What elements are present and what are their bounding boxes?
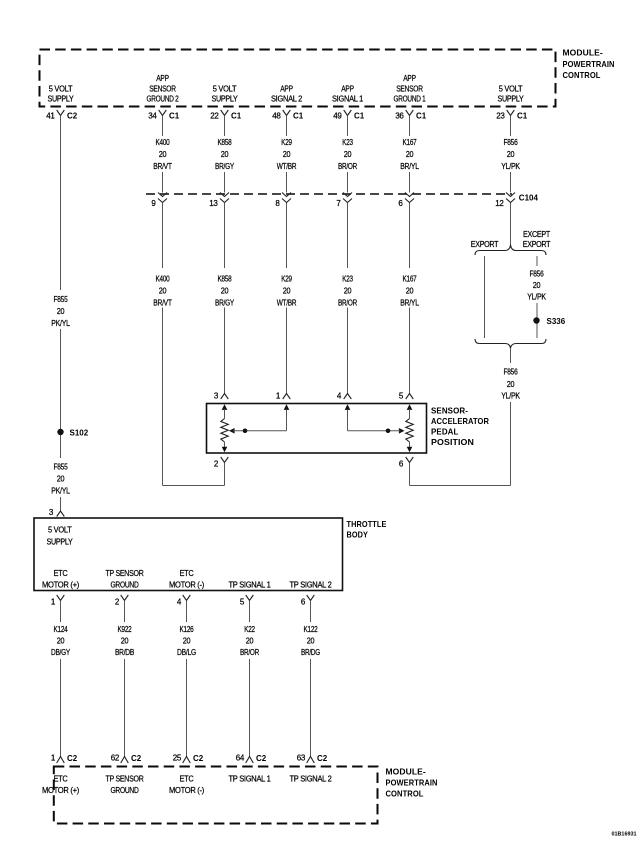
wire label K29 20 WT/BR (lower) (277, 275, 297, 308)
svg-text:GROUND 1: GROUND 1 (394, 95, 427, 104)
svg-text:63: 63 (297, 754, 306, 763)
svg-text:APP: APP (156, 74, 169, 83)
svg-text:20: 20 (344, 287, 352, 296)
svg-text:C2: C2 (67, 112, 78, 121)
svg-text:TP SIGNAL 1: TP SIGNAL 1 (229, 580, 272, 589)
svg-text:K167: K167 (403, 138, 418, 147)
wire label K400 20 BR/VT (upper) (153, 138, 172, 171)
wire label K167 20 BR/YL (upper) (400, 138, 419, 171)
svg-text:PEDAL: PEDAL (431, 426, 459, 436)
connector pin 1 C2 (bottom) (51, 754, 78, 764)
svg-text:20: 20 (159, 287, 167, 296)
svg-text:EXPORT: EXPORT (471, 240, 499, 249)
PCM pin label "APP / SIGNAL 1" (332, 84, 364, 103)
svg-text:SENSOR: SENSOR (149, 84, 176, 93)
sensor pin 2 (bottom) (214, 457, 228, 469)
svg-text:36: 36 (395, 111, 404, 120)
bottom PCM pin label "TP SIGNAL 1" (229, 774, 272, 783)
svg-text:20: 20 (57, 307, 65, 316)
wire segment x=162.5 label to C104 (162, 172, 164, 193)
connector pin 41 C2 (46, 110, 78, 121)
svg-text:64: 64 (236, 754, 245, 763)
svg-text:YL/PK: YL/PK (501, 392, 520, 401)
svg-text:20: 20 (507, 150, 515, 159)
throttle body terminal label "TP SENSOR / GROUND" (106, 569, 144, 589)
svg-text:K858: K858 (218, 275, 233, 284)
wire sensor pin 2 down (224, 463, 226, 486)
svg-text:EXCEPT: EXCEPT (523, 230, 550, 239)
svg-text:BR/VT: BR/VT (153, 299, 172, 308)
svg-text:F856: F856 (504, 368, 519, 377)
svg-text:5 VOLT: 5 VOLT (48, 526, 72, 535)
svg-text:C1: C1 (517, 112, 528, 121)
svg-text:K167: K167 (403, 275, 418, 284)
connector pin 62 C2 (bottom) (111, 754, 142, 764)
svg-text:K124: K124 (54, 625, 69, 634)
svg-text:MODULE-: MODULE- (563, 47, 603, 57)
svg-text:C1: C1 (416, 112, 427, 121)
C104 pin 12 (495, 193, 515, 209)
svg-text:K23: K23 (342, 138, 353, 147)
svg-text:5 VOLT: 5 VOLT (499, 84, 523, 93)
svg-text:C1: C1 (169, 112, 180, 121)
bottom PCM pin label "ETC / MOTOR (+)" (42, 774, 80, 795)
wire col1 between label and S102 (60, 329, 62, 458)
svg-text:APP: APP (403, 74, 416, 83)
svg-text:YL/PK: YL/PK (527, 293, 546, 302)
svg-text:WT/BR: WT/BR (277, 299, 297, 308)
connector pin 48 C1 (272, 110, 304, 121)
sensor - accelerator pedal position box (207, 404, 427, 454)
svg-text:C1: C1 (293, 112, 304, 121)
connector pin 23 C1 (496, 110, 528, 121)
svg-text:SUPPLY: SUPPLY (47, 538, 74, 547)
svg-text:20: 20 (344, 150, 352, 159)
wire col1 to throttle body pin 3 (60, 497, 62, 511)
wire horizontal to sensor pin 6 (410, 485, 511, 487)
svg-text:K23: K23 (342, 275, 353, 284)
bottom PCM pin label "TP SIGNAL 2" (290, 774, 333, 783)
option brace (bottom) (475, 339, 546, 348)
svg-text:MOTOR (-): MOTOR (-) (169, 786, 205, 795)
wire segment x=409.5 connector to label (409, 116, 411, 137)
wire label K23 20 BR/OR (upper) (338, 138, 357, 171)
wire label K23 20 BR/OR (lower) (338, 275, 357, 308)
svg-text:K29: K29 (281, 275, 292, 284)
connector pin 49 C1 (333, 110, 365, 121)
C104 pin 9 (151, 193, 167, 209)
svg-text:13: 13 (209, 199, 218, 208)
connector pin 64 C2 (bottom) (236, 754, 267, 764)
potentiometer (right half, pins 5-6 wiper 4) (345, 404, 414, 452)
wire col7 below brace (510, 348, 512, 363)
svg-text:GROUND 2: GROUND 2 (147, 95, 180, 104)
svg-text:BR/GY: BR/GY (215, 162, 235, 171)
svg-text:GROUND: GROUND (111, 786, 139, 795)
throttle body terminal label "ETC / MOTOR (-)" (169, 569, 205, 589)
PCM pin label "5 VOLT / SUPPLY" (48, 84, 75, 103)
svg-text:YL/PK: YL/PK (501, 162, 520, 171)
svg-text:5 VOLT: 5 VOLT (49, 84, 73, 93)
svg-text:20: 20 (406, 150, 414, 159)
svg-text:20: 20 (283, 150, 291, 159)
PCM pin label "APP / SENSOR / GROUND 1" (394, 74, 427, 103)
wire K122 long segment (310, 659, 312, 757)
wire label F855 20 PK/YL (upper) (51, 295, 70, 328)
label 5 VOLT SUPPLY (inside throttle body) (47, 526, 74, 547)
wire segment x=286.5 connector to label (286, 116, 288, 137)
svg-text:48: 48 (272, 111, 281, 120)
wire K124 upper segment (60, 601, 62, 623)
svg-text:12: 12 (495, 199, 504, 208)
svg-text:20: 20 (57, 637, 65, 646)
svg-text:BR/DG: BR/DG (301, 648, 320, 657)
svg-text:F855: F855 (54, 295, 69, 304)
svg-text:MOTOR (+): MOTOR (+) (42, 786, 80, 795)
wire segment x=224.5 label to APP sensor pin (224, 308, 226, 394)
svg-text:TP SIGNAL 2: TP SIGNAL 2 (290, 774, 333, 783)
label: MODULE- POWERTRAIN CONTROL (top right) (563, 47, 615, 80)
svg-text:C2: C2 (131, 754, 142, 763)
sensor pin 1 (top) (276, 392, 290, 401)
svg-text:SIGNAL 1: SIGNAL 1 (332, 95, 364, 104)
throttle body pin 4 (bottom) (177, 595, 190, 607)
svg-text:BR/OR: BR/OR (338, 162, 357, 171)
wire label K124 20 DB/GY (51, 625, 71, 657)
label THROTTLE BODY (347, 519, 387, 540)
svg-text:SENSOR: SENSOR (396, 84, 423, 93)
wire K124 long segment (60, 659, 62, 757)
svg-text:23: 23 (496, 111, 505, 120)
svg-text:BODY: BODY (347, 530, 369, 540)
wire segment x=162.5 connector to label (162, 116, 164, 137)
svg-text:C2: C2 (256, 754, 267, 763)
wire label K858 20 BR/GY (upper) (215, 138, 235, 171)
svg-text:S336: S336 (547, 317, 566, 326)
svg-text:WT/BR: WT/BR (277, 162, 297, 171)
wire segment x=224.5 label to C104 (224, 172, 226, 193)
svg-text:POWERTRAIN: POWERTRAIN (563, 59, 615, 69)
sensor pin 5 (top) (399, 392, 413, 401)
wire except-export branch lower (536, 303, 538, 338)
sensor pin 3 (top) (214, 392, 228, 401)
wire segment x=347.5 label to C104 (347, 172, 349, 193)
sensor pin 4 (top) (337, 392, 351, 401)
connector pin 34 C1 (148, 110, 180, 121)
svg-text:BR/GY: BR/GY (215, 299, 235, 308)
throttle body terminal label "ETC / MOTOR (+)" (42, 569, 80, 589)
svg-text:MOTOR (-): MOTOR (-) (169, 580, 205, 589)
svg-text:APP: APP (280, 84, 293, 93)
svg-text:POSITION: POSITION (431, 437, 474, 447)
svg-text:DB/GY: DB/GY (51, 648, 71, 657)
svg-text:K126: K126 (180, 625, 195, 634)
svg-text:25: 25 (173, 754, 182, 763)
svg-text:K29: K29 (281, 138, 292, 147)
PCM pin label "5 VOLT / SUPPLY" (212, 84, 239, 103)
svg-text:SUPPLY: SUPPLY (498, 95, 525, 104)
svg-text:C2: C2 (67, 754, 78, 763)
connector pin 63 C2 (bottom) (297, 754, 328, 764)
wire label F856 20 YL/PK (lower col7) (501, 368, 520, 401)
svg-text:BR/OR: BR/OR (240, 648, 259, 657)
throttle body terminal label "TP SIGNAL 1" (229, 580, 272, 589)
splice S102 (57, 428, 88, 437)
connector pin 36 C1 (395, 110, 427, 121)
svg-text:BR/YL: BR/YL (400, 299, 419, 308)
svg-text:K122: K122 (304, 625, 319, 634)
wire col7 F856 from C104 to option brace (510, 203, 512, 247)
C104 pin 7 (336, 193, 352, 209)
throttle body pin 2 (bottom) (115, 595, 128, 607)
svg-text:PK/YL: PK/YL (51, 319, 70, 328)
wire segment x=162.5 below C104 (162, 203, 164, 269)
wire segment x=409.5 label to APP sensor pin (409, 308, 411, 394)
svg-text:ETC: ETC (54, 774, 68, 783)
wire export branch (left) (484, 256, 486, 338)
throttle body pin 5 (bottom) (240, 595, 253, 607)
PCM pin label "APP / SIGNAL 2" (271, 84, 303, 103)
label: MODULE- POWERTRAIN CONTROL (bottom) (386, 766, 438, 798)
throttle body terminal label "TP SIGNAL 2" (290, 580, 333, 589)
throttle body pin 1 (bottom) (51, 595, 64, 607)
svg-text:SENSOR-: SENSOR- (431, 405, 468, 415)
connector pin 22 C1 (210, 110, 242, 121)
wire segment x=510.5 connector to label (510, 116, 512, 137)
wire label K29 20 WT/BR (upper) (277, 138, 297, 171)
wire K22 long segment (249, 659, 251, 757)
bottom PCM pin label "ETC / MOTOR (-)" (169, 774, 205, 795)
svg-text:F856: F856 (504, 138, 519, 147)
option brace (top) (475, 245, 546, 255)
wire K22 upper segment (249, 601, 251, 623)
svg-text:APP: APP (341, 84, 354, 93)
svg-text:20: 20 (159, 150, 167, 159)
svg-text:20: 20 (121, 637, 129, 646)
svg-text:C1: C1 (231, 112, 242, 121)
svg-text:20: 20 (307, 637, 315, 646)
wire horizontal to sensor pin 2 (163, 485, 225, 487)
svg-text:TP SENSOR: TP SENSOR (106, 569, 144, 578)
svg-text:20: 20 (283, 287, 291, 296)
wire label K167 20 BR/YL (lower) (400, 275, 419, 308)
svg-text:ETC: ETC (54, 569, 68, 578)
PCM pin label "5 VOLT / SUPPLY" (498, 84, 525, 103)
throttle body pin 3 connector (49, 508, 64, 517)
svg-text:SUPPLY: SUPPLY (212, 95, 239, 104)
svg-text:20: 20 (221, 287, 229, 296)
svg-text:BR/OR: BR/OR (338, 299, 357, 308)
svg-text:S102: S102 (70, 428, 89, 437)
svg-text:CONTROL: CONTROL (563, 70, 601, 80)
C104 pin 6 (398, 193, 414, 209)
wire col7 down to sensor pin 6 branch (510, 402, 512, 486)
potentiometer (left half, pins 3-2 wiper 1) (221, 404, 289, 452)
svg-text:22: 22 (210, 111, 219, 120)
svg-text:TP SENSOR: TP SENSOR (106, 774, 144, 783)
svg-text:THROTTLE: THROTTLE (347, 519, 387, 529)
svg-text:20: 20 (507, 380, 515, 389)
bottom PCM pin label "TP SENSOR / GROUND" (106, 774, 144, 795)
wire label F856 20 YL/PK (branch) (527, 270, 546, 302)
svg-text:41: 41 (46, 111, 55, 120)
svg-text:MODULE-: MODULE- (386, 766, 426, 776)
svg-text:K400: K400 (156, 138, 171, 147)
wire segment x=224.5 below C104 (224, 203, 226, 269)
wire K126 long segment (186, 659, 188, 757)
wire segment x=286.5 label to C104 (286, 172, 288, 193)
svg-text:K22: K22 (244, 625, 255, 634)
wire K126 upper segment (186, 601, 188, 623)
wire segment x=347.5 below C104 (347, 203, 349, 269)
svg-text:F855: F855 (54, 463, 69, 472)
svg-text:DB/LG: DB/LG (177, 648, 196, 657)
svg-text:BR/YL: BR/YL (400, 162, 419, 171)
wire except-export branch upper (536, 256, 538, 266)
wire label F856 20 YL/PK (upper) (501, 138, 520, 171)
C104 pin 8 (275, 193, 291, 209)
svg-text:CONTROL: CONTROL (386, 788, 424, 798)
wire label K126 20 DB/LG (177, 625, 196, 657)
wire segment x=347.5 label to APP sensor pin (347, 308, 349, 394)
svg-text:01B16931: 01B16931 (612, 832, 637, 838)
splice S336 (533, 317, 565, 326)
svg-text:20: 20 (406, 287, 414, 296)
svg-text:20: 20 (246, 637, 254, 646)
wire segment x=510.5 label to C104 (510, 172, 512, 193)
C104 pin 13 (209, 193, 229, 209)
svg-text:ACCELERATOR: ACCELERATOR (431, 416, 489, 426)
wire K922 upper segment (124, 601, 126, 623)
throttle body box (34, 518, 343, 591)
svg-text:TP SIGNAL 1: TP SIGNAL 1 (229, 774, 272, 783)
svg-text:5 VOLT: 5 VOLT (213, 84, 237, 93)
wire segment x=409.5 label to C104 (409, 172, 411, 193)
wire segment x=224.5 connector to label (224, 116, 226, 137)
wire label K22 20 BR/OR (240, 625, 259, 657)
svg-text:MOTOR (+): MOTOR (+) (42, 580, 80, 589)
wire K922 long segment (124, 659, 126, 757)
svg-text:C2: C2 (193, 754, 204, 763)
svg-text:20: 20 (221, 150, 229, 159)
connector pin 25 C2 (bottom) (173, 754, 204, 764)
svg-text:POWERTRAIN: POWERTRAIN (386, 777, 438, 787)
svg-text:EXPORT: EXPORT (523, 240, 551, 249)
svg-text:C1: C1 (354, 112, 365, 121)
wire col2 K400 down past sensor box to pin 2 branch (162, 308, 164, 486)
svg-text:20: 20 (183, 637, 191, 646)
svg-text:K400: K400 (156, 275, 171, 284)
svg-text:C2: C2 (317, 754, 328, 763)
PCM pin label "APP / SENSOR / GROUND 2" (147, 74, 180, 103)
wire label K400 20 BR/VT (lower) (153, 275, 172, 308)
wire label K122 20 BR/DG (301, 625, 320, 657)
svg-text:PK/YL: PK/YL (51, 487, 70, 496)
connector C104 dashed line (146, 193, 512, 195)
wire K122 upper segment (310, 601, 312, 623)
wire sensor pin 6 down (409, 463, 411, 486)
svg-text:49: 49 (333, 111, 342, 120)
svg-text:K858: K858 (218, 138, 233, 147)
wire label K922 20 BR/DB (115, 625, 134, 657)
module - powertrain control (bottom dashed box) (54, 767, 378, 824)
svg-text:C104: C104 (519, 193, 539, 202)
wire col1 (5 volt supply, F855) from pin 41 down (60, 116, 62, 291)
module - powertrain control (top dashed box) (40, 50, 556, 107)
wire segment x=409.5 below C104 (409, 203, 411, 269)
svg-text:BR/DB: BR/DB (115, 648, 134, 657)
wire segment x=286.5 label to APP sensor pin (286, 308, 288, 394)
svg-text:GROUND: GROUND (111, 580, 139, 589)
svg-text:ETC: ETC (180, 569, 194, 578)
svg-text:20: 20 (57, 475, 65, 484)
svg-text:BR/VT: BR/VT (153, 162, 172, 171)
svg-text:F856: F856 (530, 270, 545, 279)
svg-text:ETC: ETC (180, 774, 194, 783)
svg-text:SUPPLY: SUPPLY (48, 95, 75, 104)
wire segment x=347.5 connector to label (347, 116, 349, 137)
svg-text:K922: K922 (118, 625, 133, 634)
sensor pin 6 (bottom) (399, 457, 413, 469)
svg-text:62: 62 (111, 754, 120, 763)
svg-text:SIGNAL 2: SIGNAL 2 (271, 95, 303, 104)
throttle body pin 6 (bottom) (301, 595, 314, 607)
svg-text:TP SIGNAL 2: TP SIGNAL 2 (290, 580, 333, 589)
svg-text:34: 34 (148, 111, 157, 120)
wire segment x=286.5 below C104 (286, 203, 288, 269)
wire label K858 20 BR/GY (lower) (215, 275, 235, 308)
wire label F855 20 PK/YL (lower) (51, 463, 70, 496)
svg-text:20: 20 (533, 281, 541, 290)
label SENSOR- ACCELERATOR PEDAL POSITION (431, 405, 489, 447)
label EXCEPT EXPORT (right branch) (523, 230, 551, 249)
